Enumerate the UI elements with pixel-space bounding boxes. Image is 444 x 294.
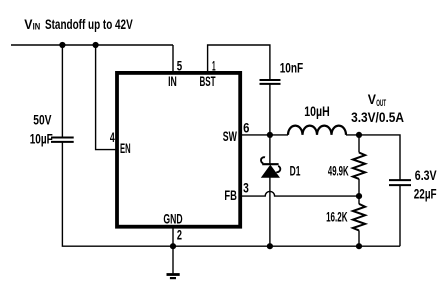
svg-text:GND: GND xyxy=(163,211,182,226)
svg-text:6: 6 xyxy=(243,120,249,135)
svg-text:BST: BST xyxy=(200,74,217,89)
label D1 xyxy=(290,164,301,179)
svg-text:OUT: OUT xyxy=(376,97,386,108)
node junction VIN/EN xyxy=(93,42,99,48)
svg-text:Standoff up to 42V: Standoff up to 42V xyxy=(45,17,133,32)
inductor L1 xyxy=(288,126,346,135)
node junction SW/C2/D1 xyxy=(267,132,273,138)
svg-text:V: V xyxy=(368,92,376,107)
wire GND pin lead xyxy=(172,227,174,247)
svg-text:EN: EN xyxy=(120,141,131,156)
pin GND label xyxy=(163,211,182,226)
wire FB with hop over diode xyxy=(240,191,359,196)
svg-text:50V: 50V xyxy=(33,112,51,127)
node junction R2 bottom xyxy=(356,243,362,249)
wire VOUT line xyxy=(346,135,400,180)
pin 4 number xyxy=(110,130,115,145)
pin FB label xyxy=(224,188,237,203)
pin 1 number xyxy=(212,59,216,74)
pin 2 number xyxy=(177,228,182,243)
label VIN xyxy=(24,17,40,32)
label C1 voltage 50V xyxy=(33,112,51,127)
svg-text:IN: IN xyxy=(33,21,41,32)
wire C1 bottom lead xyxy=(62,142,173,246)
pin IN label xyxy=(168,74,177,89)
svg-text:10µH: 10µH xyxy=(304,104,329,119)
wire C3 bottom lead xyxy=(399,185,401,246)
svg-text:6.3V: 6.3V xyxy=(415,168,437,183)
svg-text:3.3V/0.5A: 3.3V/0.5A xyxy=(351,110,404,125)
node junction GND xyxy=(170,243,176,249)
svg-text:IN: IN xyxy=(168,74,177,89)
capacitor C3 22µF plates xyxy=(389,180,411,185)
resistor R2 16.2K xyxy=(353,196,365,246)
wire VIN top rail xyxy=(11,44,173,46)
svg-text:3: 3 xyxy=(243,180,249,195)
pin 3 number xyxy=(243,180,249,195)
label R2 value 16.2K xyxy=(326,210,348,225)
pin SW label xyxy=(223,129,237,144)
svg-text:10nF: 10nF xyxy=(280,61,304,76)
svg-text:5: 5 xyxy=(177,59,183,74)
svg-text:10µF: 10µF xyxy=(30,132,53,147)
label C3 value 22µF xyxy=(414,186,437,201)
svg-text:1: 1 xyxy=(212,59,216,74)
node junction VOUT xyxy=(356,132,362,138)
svg-text:FB: FB xyxy=(224,188,237,203)
ground symbol xyxy=(167,246,180,278)
wire C1 top lead xyxy=(61,45,63,138)
wire BST pin lead xyxy=(208,45,270,80)
svg-text:16.2K: 16.2K xyxy=(326,210,348,225)
svg-text:22µF: 22µF xyxy=(414,186,437,201)
svg-text:4: 4 xyxy=(110,130,115,145)
label VOUT xyxy=(368,92,387,108)
svg-text:D1: D1 xyxy=(290,164,301,179)
capacitor C1 10µF plates xyxy=(51,138,74,142)
wire SW pin lead to inductor xyxy=(240,134,288,136)
label C1 value 10µF xyxy=(30,132,53,147)
svg-text:V: V xyxy=(24,17,32,32)
svg-text:SW: SW xyxy=(223,129,237,144)
label 3.3V/0.5A xyxy=(351,110,404,125)
diode D1 schottky xyxy=(261,135,280,246)
resistor R1 49.9K xyxy=(353,153,365,197)
svg-text:49.9K: 49.9K xyxy=(328,163,349,178)
label C3 voltage 6.3V xyxy=(415,168,437,183)
pin EN label xyxy=(120,141,131,156)
label R1 value 49.9K xyxy=(328,163,349,178)
wire IN pin lead xyxy=(172,45,174,73)
wire C2 bottom lead xyxy=(269,84,271,135)
svg-text:2: 2 xyxy=(177,228,182,243)
pin 5 number xyxy=(177,59,183,74)
wire R1 top lead xyxy=(358,135,360,153)
label Standoff up to 42V xyxy=(45,17,133,32)
wire bottom rail xyxy=(173,245,400,247)
wire EN feed vertical xyxy=(96,45,117,150)
node junction FB divider xyxy=(356,193,362,199)
pin 6 number xyxy=(243,120,249,135)
label C2 value 10nF xyxy=(280,61,304,76)
label L1 value 10µH xyxy=(304,104,329,119)
op-amp U1 IC body xyxy=(117,73,240,227)
capacitor C2 10nF plates xyxy=(260,80,281,84)
node junction VIN/C1 xyxy=(59,42,65,48)
node junction D1 bottom xyxy=(267,243,273,249)
pin BST label xyxy=(200,74,217,89)
